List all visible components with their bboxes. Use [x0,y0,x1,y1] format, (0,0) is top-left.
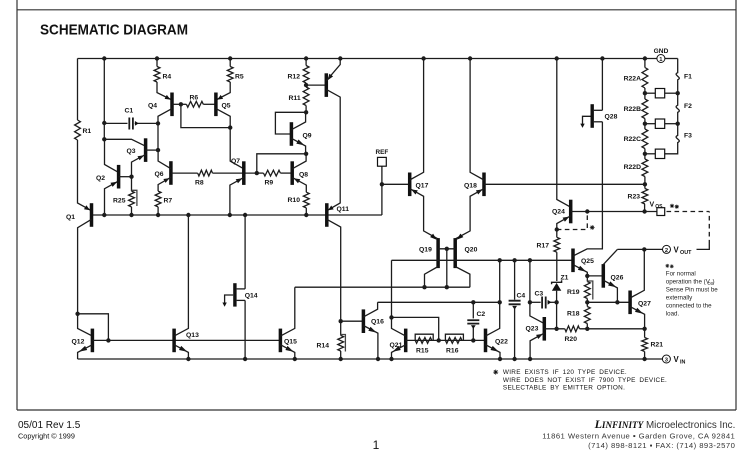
wire mirror line y=287 [295,286,470,288]
wire Q18 emitter down to Q20 [455,189,484,239]
wire Q16 collector to y302 line [363,302,377,317]
junction Q5 collector node [228,125,232,129]
resistor R5 [227,67,233,83]
svg-text:Sense Pin must be: Sense Pin must be [666,287,718,294]
wire R7 bottom [157,207,159,215]
svg-text:Q5: Q5 [222,103,231,110]
junction top rail x=230.2 (R5) [228,56,232,60]
wire Q27 emitter [630,307,645,329]
svg-text:R5: R5 [235,74,244,81]
junction Q4 base / R6 left [179,102,183,106]
transistor Q17 [408,173,412,197]
junction y260 x=514.6 (C4) [512,258,516,262]
svg-text:C3: C3 [535,291,544,298]
svg-text:WIRE DOES NOT EXIST IF 7900 TY: WIRE DOES NOT EXIST IF 7900 TYPE DEVICE. [503,377,667,384]
node bond option pad 1 [645,92,655,94]
svg-text:R6: R6 [190,95,199,102]
resistor R25 [129,191,135,207]
wire top rail left of GND pin [78,58,657,60]
wire R1 bottom to Q1 emitter [78,140,92,211]
wire R9 to Q8 base [280,172,292,174]
svg-text:Q24: Q24 [552,209,565,216]
wire Q13 emitter [174,345,188,359]
junction VIN rail x=514.6 (C4) [512,357,516,361]
svg-text:R22B: R22B [624,106,641,113]
resistor R17 [554,237,560,252]
svg-text:R8: R8 [195,180,204,187]
wire Q4 base to R6 [172,103,181,105]
junction R22C/D pad tap [643,152,647,156]
resistor R12 [303,66,309,84]
resistor R11 [303,87,309,106]
transistor Q12 [91,329,95,353]
svg-text:Q26: Q26 [611,275,624,282]
wire Q16 emitter [363,326,378,360]
wire Q16 base from Q11 collector [341,320,364,322]
wire Q28 drain to rail [601,59,603,111]
wire R14 parallel option wire [341,335,346,352]
wire Q24 emitter [557,216,571,230]
transistor Q20 [453,238,457,268]
wire Q19-Q20 base tie [438,248,455,250]
wire Q2 collector riser [105,139,119,172]
svg-text:C4: C4 [517,293,526,300]
wire Q24 collector riser [557,59,571,208]
svg-text:Q11: Q11 [337,206,350,213]
wire Q17 emitter down to Q19 [410,189,438,239]
junction R11 bottom / Q9 node [304,110,308,114]
wire left column top (rail corner down to R1) [77,59,79,121]
wire error line y=260 [392,259,574,261]
wire Q6 collector [158,150,171,169]
resistor R18 [584,307,590,324]
wire R5 bottom to Q5 emitter [216,82,230,100]
transistor Q4 [170,93,174,117]
wire Q21 emitter [392,345,406,359]
junction top rail x=423.6 (Q17 collector) [421,56,425,60]
resistor R1 [75,120,81,140]
junction zener bottom on R20 line [554,327,558,331]
transistor Q9 [290,122,294,146]
junction F2/F3 pad tap [676,122,680,126]
wire Q18 base line to R22 chain [484,183,645,185]
wire Q5 collector node to Q7 collector [230,128,244,169]
wire Q17 collector to rail [410,59,424,181]
resistor R19 [584,282,590,299]
junction Q3 collector node [102,137,106,141]
fuse F1 [676,64,679,89]
svg-text:11861 Western Avenue ▪ Garden: 11861 Western Avenue ▪ Garden Grove, CA … [542,431,735,440]
svg-text:R18: R18 [567,311,580,318]
svg-text:1: 1 [373,438,380,452]
wire Q24 base line [571,211,657,213]
svg-text:R15: R15 [416,348,429,355]
page frame right border [735,0,737,410]
svg-text:Q16: Q16 [371,319,384,326]
node bond option pad 2 [645,123,655,125]
junction R12/R11/Q10 base node [304,83,308,87]
wire Q6 emitter to R7 [158,177,171,191]
wire sense dashed vertical [708,212,710,245]
wire Q8 emitter to R10 [292,177,306,192]
svg-text:F2: F2 [684,103,692,110]
wire R21 ends [644,329,646,338]
svg-text:OUT: OUT [680,250,692,256]
junction Q24 emitter node [555,227,559,231]
wire R25 bottom to REF line [131,207,133,215]
svg-text:R21: R21 [651,342,664,349]
wire Q10 emitter to rail [326,59,340,81]
junction VOUT x=644.3 [642,247,646,251]
junction R18 bottom node [585,327,589,331]
wire R17 bottom to zener [556,252,558,281]
svg-text:R20: R20 [565,336,578,343]
wire R4 bottom to Q4 emitter [157,82,172,100]
wire R14 top [340,321,342,335]
wire Q27 base line [587,301,630,303]
svg-text:Q12: Q12 [72,339,85,346]
junction R22B/C pad tap [643,122,647,126]
wire Q5 collector [216,109,230,128]
wire R6 left segment [181,103,187,105]
junction Q2 base / R25 node [129,175,133,179]
junction Q24 base x=644.6 (R23) [642,209,646,213]
svg-text:LINFINITY Microelectronics Inc: LINFINITY Microelectronics Inc. [594,417,736,431]
svg-text:R22C: R22C [624,136,641,143]
junction REF line x=245.1 (Q14 drain) [243,213,247,217]
wire R17 top [556,230,558,238]
junction top rail x=556.7 (Q24 collector) [555,56,559,60]
wire R18 ends [586,302,588,306]
svg-text:externally: externally [666,295,693,302]
svg-text:For normal: For normal [666,271,696,278]
svg-text:C2: C2 [477,311,486,318]
svg-text:IN: IN [680,360,685,366]
wire R19 bottom [586,299,588,303]
svg-text:Q3: Q3 [127,148,136,155]
transistor Q6 [169,161,173,185]
svg-text:R12: R12 [288,74,301,81]
svg-text:OS: OS [655,204,663,210]
junction F1/F2 pad tap [676,91,680,95]
svg-text:Q8: Q8 [299,172,308,179]
wire Q19 collector [425,267,439,288]
junction Q24 base x=587.3 [585,209,589,213]
svg-text:C1: C1 [125,108,134,115]
svg-text:Q6: Q6 [155,171,164,178]
wire Q27 collector to VOUT [630,249,644,298]
wire R19 top [586,276,588,282]
wire F1-F2 link [677,89,679,99]
wire Q23 collector riser [530,260,544,323]
transistor Q24 [569,200,573,224]
pin 3 VIN terminal [662,355,670,363]
junction Q26 base node [585,274,589,278]
svg-text:Q13: Q13 [186,332,199,339]
resistor R10 [303,192,309,208]
svg-text:Q7: Q7 [231,158,240,165]
transistor Q14 (MOSFET) [233,283,236,306]
junction Q22 riser on y302 [498,300,502,304]
wire Q20 collector [455,267,470,288]
node bond option pad 3 [645,153,655,155]
wire Q11 collector down [327,219,341,321]
junction VIN rail x=644.6 (R21) [642,357,646,361]
svg-text:F1: F1 [684,74,692,81]
wire Q15 collector to mirror line [280,287,294,336]
junction y260 x=499.7 (Q22 collector) [498,258,502,262]
wire Q22 emitter [486,345,501,359]
svg-text:05/01 Rev 1.5: 05/01 Rev 1.5 [18,420,81,431]
svg-text:SELECTABLE BY EMITTER OPTION.: SELECTABLE BY EMITTER OPTION. [503,385,625,392]
svg-text:V: V [674,355,680,364]
junction Q27 base node on R19/R18 [585,300,589,304]
pin 2 VOUT terminal [663,245,671,253]
svg-text:Q20: Q20 [465,247,478,254]
wire Q23 base / R20 line [544,328,565,330]
resistor R23 [642,189,648,205]
svg-text:Q2: Q2 [96,175,105,182]
wire Q14 source to rail [244,300,246,359]
wire Q6 base to R8 [171,172,198,174]
wire Q14 drain to REF line [244,215,246,289]
wire R12 bottom [305,83,307,85]
wire R25 parallel option wire [132,190,137,206]
junction top rail x=306.1 (R12) [304,56,308,60]
wire Q18 collector to rail [470,59,484,181]
wire F3 bottom to pad [665,150,678,154]
svg-text:R19: R19 [567,289,580,296]
svg-text:Q1: Q1 [66,214,75,221]
resistor R21 [642,338,648,352]
svg-text:R11: R11 [289,95,301,102]
wire Q10 collector down to Q11 emitter [326,89,340,210]
capacitor C4 [514,260,516,299]
junction VIN rail x=530.1 (Q23 emitter) [528,357,532,361]
wire R22D bottom to Q18 base line [644,177,646,185]
wire y302 right segment (C3 to zener) [530,301,541,303]
junction REF line x=104.3 (Q2 emitter) [102,213,106,217]
wire R22A-R22B link [644,88,646,99]
wire option dashed link at Q24 [557,212,588,230]
wire Q7 base node to Q9 emitter node [257,154,306,173]
svg-text:REF: REF [376,149,389,156]
wire Q25 collector to Q28 source [573,122,602,256]
junction Q27 emitter / R21 node [642,327,646,331]
wire R10 bottom [305,208,307,215]
resistor R15 [415,338,432,344]
junction REF line x=188.4 (Q13 collector) [186,213,190,217]
svg-text:R1: R1 [83,128,92,135]
junction VIN rail x=500 (Q22 emitter) [498,357,502,361]
junction Q3 base node [156,148,160,152]
junction REF line x=158.1 (R7) [156,213,160,217]
transistor Q15 [279,329,283,353]
junction Q26 emitter / Q27 base [615,300,619,304]
wire F2-F3 link [677,119,679,129]
resistor R14 [338,335,344,351]
svg-text:WIRE EXISTS IF 120 TYPE DEVICE: WIRE EXISTS IF 120 TYPE DEVICE. [503,369,627,376]
wire VIN rail [78,358,663,360]
junction y260 x=529.9 (Q23 collector) [528,258,532,262]
star option marker at Q24 [590,225,595,230]
wire Q2 emitter to REF line [105,181,119,215]
junction REF line x=229.8 (Q7 emitter) [228,213,232,217]
junction VIN rail x=391.5 (Q21 emitter) [389,357,393,361]
wire Q3 emitter down to Q2 base [132,154,146,191]
transistor Q27 [628,291,632,315]
wire Q9 emitter [291,138,305,154]
svg-text:R7: R7 [164,198,173,205]
diode Z1 (zener) [552,280,562,284]
resistor R16 [445,338,462,344]
svg-text:operation the (V: operation the (V [666,279,711,286]
svg-text:connected to the: connected to the [666,303,712,310]
wire x=104.3 column (rail to Q2 collector) [103,59,105,140]
svg-text:Q22: Q22 [495,339,508,346]
page frame bottom rule [17,409,736,411]
svg-text:Q19: Q19 [419,247,432,254]
svg-text:R10: R10 [288,197,301,204]
wire sense dashed horizontal [667,211,710,213]
wire R11 bottom [305,106,307,113]
wire R22C-R22D link [644,149,646,160]
junction REF line x=131.5 (R25) [129,213,133,217]
wire Q3 collector horizontal [104,139,145,146]
junction top rail x=340.3 (Q10 emitter) [338,56,342,60]
wire Q12 collector [78,314,93,336]
svg-text:Q27: Q27 [638,301,651,308]
svg-text:load.: load. [666,311,680,318]
svg-text:Q23: Q23 [526,326,539,333]
wire R23 top [644,184,646,188]
junction C1 left plate node [102,121,106,125]
resistor R22D [642,159,648,177]
junction Q7 base right node [255,171,259,175]
junction Q12 base link [106,338,110,342]
junction top rail x=470.1 (Q18 collector) [468,56,472,60]
wire Q13 collector to REF line [174,215,188,336]
junction C2 tap [471,300,475,304]
wire Q4 base to Q5 collector loop [181,104,230,127]
svg-text:F3: F3 [684,133,692,140]
wire Q9 base loop [275,112,306,134]
svg-text:R22A: R22A [624,76,641,83]
wire R22A top [644,59,646,68]
svg-text:R23: R23 [628,194,641,201]
wire R14 bottom [340,351,342,359]
junction C1 right / Q4 collector node [156,121,160,125]
junction REF riser to Q17 base [380,182,384,186]
junction top rail x=644.9 (R22A) [643,56,647,60]
svg-text:Q17: Q17 [416,183,429,190]
junction VIN rail x=294.8 (Q15 emitter) [293,357,297,361]
wire Q26 emitter to Q27 base [603,280,617,302]
junction R22D / Q18 base [643,182,647,186]
transistor Q2 [117,165,121,189]
junction x391.5 y317.4 node [389,315,393,319]
wire REF base line [92,214,382,216]
wire R23 bottom [644,204,646,212]
fuse F2 [676,99,679,120]
wire R5 top [229,59,231,67]
wire Q3 base [146,149,158,151]
resistor R4 [154,67,160,83]
wire Q25 emitter [573,265,587,276]
junction Q1 collector / Q12 link [75,312,79,316]
wire Q26 base [587,275,603,277]
wire Q10 base [306,84,326,86]
transistor Q18 [482,173,486,197]
capacitor C3 [541,297,543,309]
wire zener to R20 line [556,302,558,329]
transistor Q10 (unlabelled) [325,73,329,97]
transistor Q11 [325,203,329,227]
capacitor C2 [467,319,479,321]
svg-text:V: V [674,245,680,254]
wire Q12 emitter to rail [78,345,93,359]
wire R9 left [257,172,264,174]
junction VIN rail x=378 (Q16 emitter) [376,357,380,361]
svg-text:Q9: Q9 [303,133,312,140]
junction Q19/Q20 base centre [445,247,449,251]
wire R12 top [305,59,307,66]
transistor Q23 [543,317,547,341]
junction base drop on y=287 line [445,285,449,289]
wire R4 top [156,59,158,67]
svg-text:GND: GND [654,48,669,55]
wire Q12 diode link [78,314,109,341]
wire Q23 emitter [530,333,544,359]
transistor Q19 [436,238,440,268]
svg-text:V: V [650,202,655,209]
wire Q21-Q22 base line [406,339,486,341]
transistor Q13 [172,329,176,353]
svg-text:Q28: Q28 [605,114,618,121]
svg-text:Q18: Q18 [464,183,477,190]
junction C3 right on zener column [554,300,558,304]
junction REF line x=306.3 (R10) [304,213,308,217]
wire R19 parallel option wire [587,281,593,300]
transistor Q28 (MOSFET) [591,104,594,128]
junction Q19 collector on y=287 line [422,285,426,289]
junction VIN rail x=340.7 (R14) [339,357,343,361]
wire Q9 collector [291,112,305,129]
transistor Q7 [242,161,246,185]
wire Q19/Q20 base drop [446,249,448,287]
wire fuse column top corner [677,59,679,65]
sense note [665,264,673,268]
transistor Q1 [90,203,94,227]
wire y317 link to R15/R16 mid [392,317,439,340]
wire Q4 collector node down to Q3 base [157,123,159,150]
node REF pad [378,157,387,166]
wire VOUT sense stub [697,245,710,250]
svg-text:Z1: Z1 [561,275,569,282]
svg-text:Copyright © 1999: Copyright © 1999 [18,432,75,441]
svg-text:): ) [713,279,715,286]
svg-text:R9: R9 [265,180,274,187]
capacitor C1 [128,118,130,130]
wire Q7 emitter [230,177,244,215]
junction R15/R16 mid [437,338,441,342]
wire REF line riser to REF pad [381,166,383,215]
svg-text:R14: R14 [317,343,330,350]
transistor Q5 [214,93,218,117]
wire Q15 emitter [280,345,294,359]
wire error line y=260 corner riser [391,260,393,317]
svg-text:Q25: Q25 [581,258,594,265]
